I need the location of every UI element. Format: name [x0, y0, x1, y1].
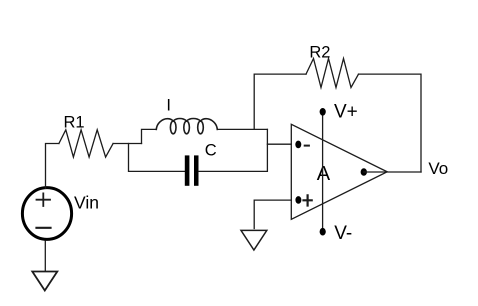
svg-text:C: C	[205, 141, 217, 159]
svg-text:V+: V+	[334, 101, 358, 122]
svg-text:R2: R2	[309, 44, 330, 62]
svg-text:I: I	[166, 96, 171, 114]
svg-text:V-: V-	[334, 223, 352, 244]
op-amp supply line	[322, 112, 324, 232]
wire node N1 up to inductor	[142, 129, 157, 143]
inverting input minus sign	[305, 145, 309, 147]
wire node N1 down to capacitor	[129, 144, 185, 172]
inductor I	[156, 119, 217, 134]
non-inverting input dot	[295, 196, 301, 204]
svg-text:Vo: Vo	[428, 159, 448, 178]
resistor R2	[306, 59, 359, 88]
wire non-inverting input to ground	[254, 200, 291, 228]
svg-text:A: A	[317, 163, 331, 185]
inverting input dot	[295, 141, 301, 149]
ground G1	[32, 272, 57, 291]
output dot	[361, 168, 367, 176]
ground G2	[241, 230, 267, 250]
op-amp A triangle	[291, 124, 387, 219]
wire source-top to R1	[46, 144, 59, 189]
pin V+ dot	[320, 108, 326, 116]
non-inverting input plus sign	[304, 195, 312, 205]
resistor R1	[59, 130, 113, 157]
svg-text:Vin: Vin	[74, 192, 99, 212]
wire node N2 up to R2	[254, 74, 306, 129]
capacitor C	[185, 155, 199, 185]
wire capacitor to node N2	[199, 129, 268, 171]
voltage source V1	[22, 188, 71, 240]
wire R2 to output node	[359, 74, 422, 172]
wire inductor to node N2	[217, 128, 267, 130]
wire R1 to node N1	[113, 143, 141, 145]
wire source-bottom to ground	[44, 241, 46, 271]
pin V- dot	[320, 228, 326, 236]
svg-text:R1: R1	[64, 113, 85, 131]
wire op-amp output to Vo	[364, 171, 421, 173]
wire node N2 to op-amp inverting input	[267, 143, 291, 145]
